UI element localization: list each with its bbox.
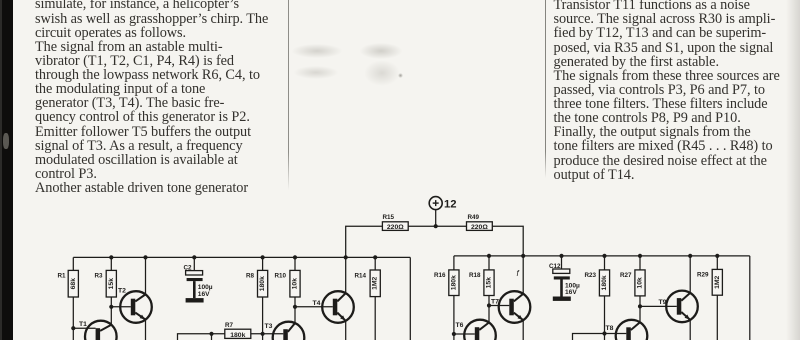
- ground bar below C12: [553, 297, 571, 301]
- wire: T4 emitter down: [345, 321, 347, 340]
- label T6: [456, 322, 464, 329]
- wire: rail corner into R16 top lead: [453, 256, 455, 270]
- wire: R3 top lead: [110, 257, 112, 270]
- wire: R16 bottom lead down: [453, 296, 455, 340]
- junction: rail / R3: [109, 255, 113, 259]
- wire: T2 emitter down: [145, 319, 147, 340]
- value 100u 16V (C2): [198, 284, 213, 298]
- resistor R49 box: [467, 222, 493, 231]
- svg-text:1M2: 1M2: [372, 276, 379, 289]
- wire: R18 bottom lead to T6 collector: [488, 296, 490, 323]
- resistor R3 box: [106, 270, 116, 297]
- svg-text:16V: 16V: [198, 291, 210, 298]
- svg-text:10k: 10k: [292, 278, 299, 290]
- wire: tap below R7 wire: [211, 334, 213, 340]
- wire: rail to T9 collector: [689, 256, 691, 293]
- junction: right supply rail / T7 collector riser: [521, 254, 525, 258]
- wire: R23 bottom lead down: [604, 296, 606, 340]
- wire: rail to C2 plus plate: [193, 257, 195, 270]
- wire: left lead of T8 base rising from below: [573, 334, 627, 340]
- svg-text:R7: R7: [225, 322, 234, 329]
- svg-text:R27: R27: [620, 272, 632, 279]
- svg-text:10k: 10k: [637, 277, 644, 289]
- wire: C2 negative lead: [193, 281, 196, 298]
- junction: rail / C12: [559, 254, 563, 258]
- wire: +12 terminal down to supply node: [435, 209, 437, 226]
- label T2: [118, 288, 126, 295]
- svg-text:12: 12: [444, 199, 457, 211]
- value 180k (R8): [259, 276, 266, 291]
- svg-text:16V: 16V: [565, 289, 577, 296]
- value 180k (R16): [450, 275, 457, 290]
- svg-text:R8: R8: [246, 273, 255, 280]
- wire: R8 bottom lead down: [262, 297, 264, 340]
- wire: left supply rail: [73, 256, 410, 258]
- stray mark f: [517, 269, 520, 278]
- capacitor C2 positive plate: [186, 271, 203, 275]
- svg-text:15k: 15k: [486, 277, 493, 289]
- junction: rail / R8: [261, 255, 265, 259]
- capacitor C12 positive plate: [553, 269, 570, 273]
- wire: supply node to R49: [436, 225, 467, 227]
- wire: rail to T2 collector: [145, 257, 147, 294]
- resistor R29 box: [712, 269, 722, 295]
- junction: R8 lead / R7-T3 wire: [261, 332, 265, 336]
- junction: R18 lead / T7 base wire: [487, 303, 491, 307]
- label R29: [697, 272, 709, 279]
- wire: R3 bottom lead to T1 collector: [110, 297, 112, 325]
- value 68k (R1): [70, 278, 77, 290]
- value 180k (R7): [230, 332, 245, 339]
- svg-text:180k: 180k: [230, 332, 245, 339]
- svg-text:T6: T6: [456, 322, 464, 329]
- svg-text:68k: 68k: [70, 278, 77, 290]
- svg-text:180k: 180k: [450, 275, 457, 290]
- left text column: [35, 0, 268, 195]
- label R7: [225, 322, 234, 329]
- wire: R27 bottom lead to T8 collector: [639, 296, 641, 322]
- junction: R10 lead / T4 base wire: [293, 305, 297, 309]
- junction: rail / T2 collector: [143, 255, 147, 259]
- label R10: [275, 273, 287, 280]
- svg-text:R10: R10: [275, 273, 287, 280]
- wire: R7 to T3 base: [251, 333, 283, 335]
- svg-text:220Ω: 220Ω: [471, 224, 488, 231]
- label T8: [606, 325, 614, 332]
- svg-text:180k: 180k: [601, 275, 608, 290]
- transistor T7: [499, 291, 531, 323]
- wire: right supply rail: [454, 255, 750, 257]
- junction: R16 lead / T6 base wire: [452, 332, 456, 336]
- junction: rail / R23: [602, 254, 606, 258]
- junction: R27 lead / T9 base wire: [638, 304, 642, 308]
- wire: left lead of R7 rising from below: [178, 334, 225, 340]
- label R23: [585, 272, 597, 279]
- wire: R29 bottom lead down: [716, 295, 718, 340]
- junction: rail / C2: [192, 255, 196, 259]
- resistor R23 box: [599, 270, 609, 296]
- wire: R15 left lead with corner down to T4 collector: [346, 226, 383, 293]
- right text column: [554, 0, 780, 182]
- resistor R18 box: [484, 270, 494, 296]
- faint print bleed-through smudges: [292, 44, 342, 58]
- column divider rules: [288, 0, 289, 190]
- wire: R18 top lead: [488, 256, 490, 270]
- wire: R29 top lead: [716, 256, 718, 270]
- wire: left rail right corner down: [409, 257, 411, 340]
- power supply terminal +12 V: [429, 197, 456, 211]
- label C2: [184, 265, 193, 272]
- label C12: [549, 263, 561, 270]
- transistor T3: [273, 322, 305, 340]
- wire: R1 bottom lead down: [72, 297, 74, 340]
- label T3: [265, 323, 273, 330]
- capacitor C12 negative plate: [554, 276, 570, 279]
- resistor R16 box: [449, 270, 459, 296]
- value 100u 16V (C12): [565, 283, 580, 297]
- wire: T7 base wire: [489, 305, 509, 307]
- capacitor C2 negative plate: [187, 278, 203, 281]
- svg-text:T8: T8: [606, 325, 614, 332]
- resistor R14 box: [370, 270, 380, 297]
- value 10k (R27): [637, 277, 644, 289]
- node: R15/R49 supply junction: [434, 224, 438, 228]
- resistor R15 box: [382, 222, 408, 231]
- svg-text:T7: T7: [491, 299, 499, 306]
- value 10k (R10): [292, 278, 299, 290]
- value 15k (R3): [108, 278, 115, 290]
- junction: R7 left wire tap: [209, 332, 213, 336]
- junction: rail / R14: [373, 255, 377, 259]
- svg-text:C12: C12: [549, 263, 561, 270]
- right page-edge shading: [786, 0, 800, 340]
- label T1: [79, 321, 87, 328]
- label T7: [491, 299, 499, 306]
- junction: R23 lead / T8 base wire: [602, 331, 606, 335]
- label R1: [58, 273, 67, 280]
- transistor T8: [616, 320, 648, 340]
- svg-text:T9: T9: [659, 299, 667, 306]
- wire: R23 top lead: [604, 256, 606, 270]
- label T4: [313, 300, 321, 307]
- transistor T9: [666, 291, 698, 323]
- label R14: [355, 273, 367, 280]
- wire: R14 top lead: [374, 257, 376, 270]
- wire: R10 bottom lead to T3 collector: [294, 297, 296, 323]
- resistor R7 box: [225, 329, 251, 338]
- value 220 ohm (R49): [471, 224, 488, 231]
- junction: left supply rail / T4 collector riser: [344, 255, 348, 259]
- wire: right rail right corner down: [749, 256, 751, 340]
- wire: rail corner into R1 top lead: [72, 257, 74, 270]
- junction: R1 lead / T1 base wire: [71, 326, 75, 330]
- wire: T9 emitter down: [689, 320, 691, 340]
- svg-text:R1: R1: [58, 273, 67, 280]
- label R15: [383, 214, 395, 221]
- junction: rail / R27: [638, 254, 642, 258]
- wire: T4 base wire: [295, 306, 333, 308]
- wire: C12 negative lead: [560, 280, 563, 297]
- label R18: [469, 272, 481, 279]
- svg-text:1M2: 1M2: [714, 275, 721, 288]
- transistor T1: [85, 321, 117, 340]
- junction: rail / R10: [293, 255, 297, 259]
- junction: R3 lead / T2 base wire: [109, 305, 113, 309]
- svg-text:15k: 15k: [108, 278, 115, 290]
- wire: T6 base wire: [454, 333, 475, 335]
- label T9: [659, 299, 667, 306]
- resistor R27 box: [635, 270, 645, 296]
- wire: R49 right lead with corner down to T7 collector: [492, 226, 523, 294]
- svg-text:C2: C2: [184, 265, 193, 272]
- svg-text:R14: R14: [355, 273, 367, 280]
- wire: T9 base wire: [640, 305, 677, 307]
- svg-text:T4: T4: [313, 300, 321, 307]
- wire: R10 top lead: [294, 257, 296, 270]
- wire: supply node to R15: [408, 225, 436, 227]
- wire: R27 top lead: [639, 256, 641, 270]
- svg-text:220Ω: 220Ω: [387, 224, 404, 231]
- transistor T2: [120, 291, 152, 323]
- label R49: [468, 214, 480, 221]
- svg-text:R49: R49: [468, 214, 480, 221]
- wire: rail to C12 plus plate: [561, 256, 563, 269]
- label R16: [434, 272, 446, 279]
- junction: rail / T9 collector: [688, 254, 692, 258]
- resistor R10 box: [290, 270, 300, 297]
- svg-text:T3: T3: [265, 323, 273, 330]
- svg-text:T2: T2: [118, 288, 126, 295]
- junction: rail / R18: [487, 254, 491, 258]
- svg-text:R29: R29: [697, 272, 709, 279]
- svg-text:f: f: [517, 269, 520, 278]
- svg-text:R16: R16: [434, 272, 446, 279]
- wire: R8 top lead: [262, 257, 264, 270]
- svg-text:R23: R23: [585, 272, 597, 279]
- transistor T6: [464, 320, 496, 340]
- svg-text:R15: R15: [383, 214, 395, 221]
- value 15k (R18): [486, 277, 493, 289]
- wire: R14 bottom lead down: [374, 297, 376, 340]
- label R27: [620, 272, 632, 279]
- wire: T1 base wire: [73, 327, 95, 329]
- svg-text:T1: T1: [79, 321, 87, 328]
- left black page-edge strip: [0, 0, 13, 340]
- svg-text:180k: 180k: [259, 276, 266, 291]
- svg-text:R18: R18: [469, 272, 481, 279]
- label R8: [246, 273, 255, 280]
- junction: rail / R29: [715, 254, 719, 258]
- transistor T4: [322, 291, 354, 323]
- value 1M2 (R14): [372, 276, 379, 289]
- wire: T2 base wire: [111, 306, 131, 308]
- value 180k (R23): [601, 275, 608, 290]
- svg-text:R3: R3: [95, 273, 104, 280]
- value 220 ohm (R15): [387, 224, 404, 231]
- ground bar below C2: [186, 298, 204, 302]
- label R3: [95, 273, 104, 280]
- resistor R1 box: [68, 270, 78, 297]
- wire: T7 emitter down: [522, 320, 524, 340]
- value 1M2 (R29): [714, 275, 721, 288]
- resistor R8 box: [258, 270, 268, 297]
